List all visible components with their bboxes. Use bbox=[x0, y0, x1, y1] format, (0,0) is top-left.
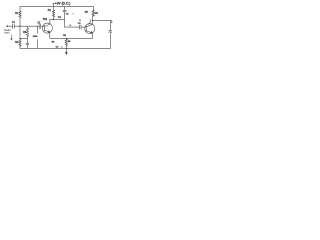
input terminal bbox=[6, 25, 8, 27]
capacitor C4 bbox=[39, 24, 41, 28]
wire collector bus bbox=[50, 18, 65, 20]
arrowhead TR1 emitter bbox=[48, 31, 50, 33]
node D emitter-bus junction bbox=[66, 38, 67, 39]
wire bottom ground rail bbox=[20, 47, 110, 49]
node B divider lower junction bbox=[19, 38, 20, 39]
wire left bias column bbox=[19, 7, 21, 49]
resistor R3 bbox=[27, 26, 29, 38]
wire emitter bus bbox=[50, 37, 93, 39]
arrowhead TR2 emitter bbox=[91, 31, 93, 33]
node C TR1 collector junction bbox=[53, 19, 54, 20]
svg-text:+9V (D.C.): +9V (D.C.) bbox=[55, 2, 71, 6]
capacitor C7 bbox=[109, 30, 112, 48]
wire top supply rail bbox=[20, 6, 93, 8]
capacitor C1 bbox=[13, 24, 15, 28]
node E ground-rail junction bbox=[66, 48, 67, 49]
resistor R2 bbox=[19, 39, 22, 46]
label TR2 diagonal mark bbox=[88, 19, 91, 25]
resistor R4 bbox=[53, 7, 55, 20]
ground bbox=[65, 48, 67, 52]
node A input-divider junction bbox=[19, 26, 20, 27]
svg-text:TR1: TR1 bbox=[43, 19, 48, 21]
ground arrowhead bbox=[65, 52, 68, 55]
node F TR2 collector junction bbox=[92, 20, 93, 21]
transistor TR1 bbox=[42, 23, 52, 33]
capacitor C6 bbox=[80, 25, 81, 29]
resistor R6 bbox=[65, 38, 67, 48]
resistor R1 bbox=[19, 11, 22, 17]
wire output line bbox=[93, 21, 112, 30]
capacitor C5 bbox=[63, 7, 66, 28]
input arrow bbox=[11, 35, 13, 39]
capacitor C2 bbox=[26, 39, 29, 49]
node o-mark bbox=[73, 13, 74, 14]
wire to TR2 base bbox=[65, 26, 87, 28]
transistor TR2 bbox=[85, 24, 95, 34]
node G base lead dot bbox=[79, 20, 80, 21]
resistor R7 bbox=[92, 7, 94, 11]
svg-text:100k: 100k bbox=[33, 36, 39, 38]
wire divider link bbox=[20, 38, 28, 40]
svg-text:input: input bbox=[4, 32, 10, 35]
node +9V supply tap bbox=[53, 3, 55, 6]
wire input line bbox=[7, 25, 44, 27]
capacitor C3 bbox=[37, 26, 39, 48]
